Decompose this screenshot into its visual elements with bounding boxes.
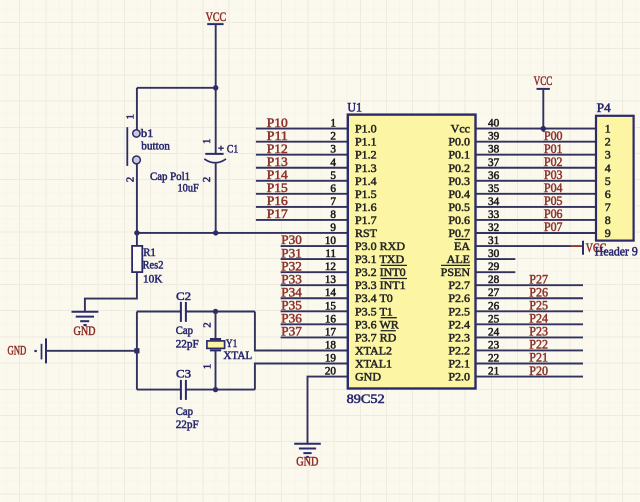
svg-text:P0.0: P0.0 (448, 135, 470, 149)
svg-text:P2.6: P2.6 (448, 291, 470, 305)
button b1 (push-button SW-PB) (127, 127, 140, 166)
svg-text:XTAL: XTAL (223, 348, 252, 362)
svg-text:5: 5 (330, 170, 336, 182)
wire RST to R1 pin1 (136, 233, 138, 246)
wire net P06 (pin 33 to P4 pin 8) (476, 219, 597, 221)
svg-text:10K: 10K (143, 271, 163, 285)
wire C1 pin2 to RST net (215, 164, 217, 233)
wire VCC to pin40 net (542, 89, 544, 129)
svg-text:P11: P11 (267, 129, 288, 143)
svg-text:P3.4 T0: P3.4 T0 (355, 291, 393, 305)
svg-text:15: 15 (325, 300, 337, 312)
svg-text:P0.2: P0.2 (448, 161, 470, 175)
svg-text:P03: P03 (544, 168, 563, 182)
wire net P21 (pin 22) (476, 363, 584, 365)
svg-text:9: 9 (330, 222, 336, 234)
svg-text:P35: P35 (281, 299, 302, 313)
wire net P07 (pin 32 to P4 pin 9) (476, 232, 597, 234)
svg-text:P2.7: P2.7 (448, 278, 470, 292)
node junction crystal top (213, 309, 218, 314)
svg-text:Res2: Res2 (143, 257, 164, 271)
wire RST net (row 9) (137, 232, 347, 234)
svg-text:VCC: VCC (534, 73, 553, 88)
wire net P05 (pin 34 to P4 pin 7) (476, 206, 597, 208)
op-amp U1 body (89C52 MCU) (348, 115, 476, 389)
ground (earth) bottom center (294, 444, 321, 457)
wire net P26 (pin 27) (476, 297, 584, 299)
svg-text:Vcc: Vcc (451, 122, 470, 136)
svg-text:10: 10 (325, 235, 337, 247)
wire net P33 (pin 13) (281, 284, 347, 286)
overline EA (455, 238, 470, 240)
svg-text:P12: P12 (267, 142, 288, 156)
svg-text:6: 6 (605, 187, 611, 201)
svg-text:P01: P01 (544, 142, 563, 156)
svg-text:14: 14 (325, 287, 337, 299)
svg-text:5: 5 (605, 174, 611, 188)
wire net P23 (pin 24) (476, 336, 584, 338)
svg-text:GND: GND (355, 370, 381, 384)
svg-text:P02: P02 (544, 155, 563, 169)
svg-text:P22: P22 (529, 338, 548, 352)
svg-text:Cap: Cap (176, 323, 193, 337)
power VCC (top, net VCC) (206, 9, 227, 24)
svg-text:P1.4: P1.4 (355, 174, 377, 188)
power VCC (bar style, at EA pin) (583, 241, 606, 255)
svg-text:12: 12 (325, 261, 336, 273)
wire net P03 (pin 36 to P4 pin 5) (476, 180, 597, 182)
svg-text:3: 3 (330, 144, 336, 156)
wire net VCC (pin 40 to P4 pin 1) (476, 128, 597, 130)
wire net P12 (pin 3) (256, 154, 347, 156)
wire net P37 (pin 17) (281, 336, 347, 338)
node junction button/RST (134, 230, 139, 235)
svg-text:GND: GND (8, 343, 27, 357)
svg-text:P3.0 RXD: P3.0 RXD (355, 239, 405, 253)
svg-text:EA: EA (454, 239, 470, 253)
svg-text:16: 16 (325, 313, 337, 325)
wire GND port to crystal loop (46, 350, 137, 352)
svg-text:P0.3: P0.3 (448, 174, 470, 188)
wire net P11 (pin 2) (256, 141, 347, 143)
wire net P10 (pin 1) (256, 128, 347, 130)
wire PSEN stub (pin 29) (476, 271, 516, 273)
svg-text:P1.0: P1.0 (355, 122, 377, 136)
svg-text:GND: GND (296, 454, 318, 468)
wire crystal pin1 (215, 351, 217, 390)
svg-text:1: 1 (125, 114, 137, 120)
svg-text:20: 20 (325, 366, 337, 378)
wire loop bottom (to C3) (137, 389, 181, 391)
wire XTAL2 link to pin 18 (255, 312, 347, 351)
wire net P30 (pin 10) (281, 245, 347, 247)
node junction C1/RST (213, 230, 218, 235)
svg-text:2: 2 (330, 131, 336, 143)
svg-text:7: 7 (605, 200, 611, 214)
svg-text:P05: P05 (544, 194, 563, 208)
svg-text:P31: P31 (281, 246, 302, 260)
svg-text:1: 1 (330, 118, 336, 130)
svg-text:C1: C1 (227, 142, 238, 156)
capacitor C2 (Cap 22pF) (181, 302, 186, 322)
power GND (bar style, left) (34, 338, 46, 363)
overline WR (381, 317, 397, 319)
svg-text:18: 18 (325, 340, 337, 352)
svg-text:P2.5: P2.5 (448, 304, 470, 318)
svg-text:P0.4: P0.4 (448, 187, 470, 201)
svg-text:10uF: 10uF (178, 181, 200, 195)
svg-text:17: 17 (325, 326, 337, 338)
svg-text:P37: P37 (281, 325, 302, 339)
svg-text:XTAL1: XTAL1 (355, 357, 392, 371)
wire net P16 (pin 7) (256, 206, 347, 208)
svg-text:9: 9 (605, 226, 611, 240)
svg-text:1: 1 (201, 139, 213, 145)
wire net P36 (pin 16) (281, 323, 347, 325)
svg-text:P27: P27 (529, 272, 548, 286)
svg-text:VCC: VCC (206, 9, 227, 24)
svg-text:P2.4: P2.4 (448, 317, 470, 331)
svg-text:button: button (141, 138, 170, 152)
svg-text:P14: P14 (267, 168, 289, 182)
svg-text:7: 7 (330, 196, 336, 208)
wire net P04 (pin 35 to P4 pin 6) (476, 193, 597, 195)
svg-text:C2: C2 (176, 289, 191, 303)
wire C2 to crystal column (186, 311, 255, 313)
power VCC (above P4) (534, 73, 553, 89)
svg-text:1: 1 (202, 364, 214, 370)
wire button pin1 stub (136, 88, 138, 130)
svg-text:22pF: 22pF (176, 417, 199, 431)
svg-text:P3.7 RD: P3.7 RD (355, 330, 397, 344)
svg-text:C3: C3 (176, 367, 191, 381)
svg-text:3: 3 (605, 148, 611, 162)
svg-text:RST: RST (355, 226, 378, 240)
overline RD (381, 330, 396, 332)
wire net P14 (pin 5) (256, 180, 347, 182)
crystal Y1 (XTAL) (207, 339, 225, 350)
svg-text:P4: P4 (597, 101, 612, 115)
wire net P02 (pin 37 to P4 pin 4) (476, 167, 597, 169)
svg-text:P16: P16 (267, 194, 288, 208)
svg-text:P07: P07 (544, 220, 563, 234)
wire branch VCC to button top (137, 87, 216, 89)
wire net P17 (pin 8) (256, 219, 347, 221)
wire net P27 (pin 28) (476, 284, 584, 286)
svg-text:P24: P24 (529, 312, 548, 326)
overline INT0 (381, 264, 407, 266)
svg-text:2: 2 (201, 177, 213, 183)
wire R1 pin2 to GND (85, 272, 137, 311)
svg-text:P1.3: P1.3 (355, 161, 377, 175)
svg-text:P33: P33 (281, 272, 302, 286)
svg-text:P06: P06 (544, 207, 563, 221)
wire loop left vertical (136, 312, 138, 390)
svg-text:P2.2: P2.2 (448, 344, 470, 358)
svg-text:U1: U1 (347, 100, 362, 114)
svg-text:ALE: ALE (447, 252, 470, 266)
wire net P31 (pin 11) (281, 258, 347, 260)
wire net P35 (pin 15) (281, 310, 347, 312)
wire loop top (to C2) (137, 311, 181, 313)
svg-text:XTAL2: XTAL2 (355, 344, 392, 358)
svg-text:P34: P34 (281, 285, 302, 299)
node junction crystal bottom (213, 387, 218, 392)
wire EA (pin 31) (476, 245, 571, 247)
svg-text:P26: P26 (529, 285, 548, 299)
wire pin20 to GND (308, 377, 348, 444)
wire VCC vertical (bar to C1) (215, 24, 217, 154)
overline PSEN (441, 264, 470, 266)
wire net P01 (pin 38 to P4 pin 3) (476, 154, 597, 156)
svg-text:P2.3: P2.3 (448, 330, 470, 344)
svg-text:P0.1: P0.1 (448, 148, 470, 162)
wire net P34 (pin 14) (281, 297, 347, 299)
svg-text:22pF: 22pF (176, 336, 199, 350)
svg-text:4: 4 (330, 157, 336, 169)
wire net P32 (pin 12) (281, 271, 347, 273)
svg-text:P13: P13 (267, 155, 288, 169)
svg-text:2: 2 (125, 177, 137, 183)
svg-text:P17: P17 (267, 207, 288, 221)
svg-text:P1.7: P1.7 (355, 213, 377, 227)
svg-text:Cap: Cap (176, 404, 193, 418)
svg-text:P1.5: P1.5 (355, 187, 377, 201)
node junction VCC/pin40 (540, 125, 547, 132)
svg-text:P15: P15 (267, 181, 288, 195)
svg-text:P0.7: P0.7 (448, 226, 470, 240)
svg-text:P3.6 WR: P3.6 WR (355, 317, 399, 331)
node junction VCC/button branch (213, 85, 218, 90)
svg-text:P36: P36 (281, 312, 302, 326)
svg-text:Header 9: Header 9 (595, 245, 638, 259)
svg-text:2: 2 (605, 135, 611, 149)
wire C3 to crystal column (186, 389, 255, 391)
svg-text:PSEN: PSEN (441, 265, 471, 279)
resistor R1 (Res2 10K) (132, 246, 142, 272)
svg-text:P3.2 INT0: P3.2 INT0 (355, 265, 406, 279)
svg-text:11: 11 (325, 248, 336, 260)
wire button pin2 to RST net (136, 164, 138, 233)
svg-text:P21: P21 (529, 351, 548, 365)
svg-text:2: 2 (202, 322, 214, 328)
svg-text:P0.5: P0.5 (448, 200, 470, 214)
svg-text:P3.3 INT1: P3.3 INT1 (355, 278, 406, 292)
svg-text:P1.6: P1.6 (355, 200, 377, 214)
wire net P24 (pin 25) (476, 323, 584, 325)
wire VCC port stub (maroon) (571, 245, 584, 247)
wire net P15 (pin 6) (256, 193, 347, 195)
svg-text:P3.1 TXD: P3.1 TXD (355, 252, 404, 266)
svg-text:P3.5 T1: P3.5 T1 (355, 304, 393, 318)
svg-text:P04: P04 (544, 181, 563, 195)
wire crystal pin2 (215, 312, 217, 340)
svg-text:8: 8 (330, 209, 336, 221)
svg-text:89C52: 89C52 (347, 392, 385, 406)
svg-text:P23: P23 (529, 325, 548, 339)
svg-text:13: 13 (325, 274, 337, 286)
svg-text:GND: GND (74, 324, 96, 338)
svg-text:P00: P00 (544, 129, 563, 143)
wire XTAL1 link to pin 19 (255, 364, 347, 390)
svg-text:4: 4 (605, 161, 611, 175)
capacitor C3 (Cap 22pF) (181, 380, 186, 400)
capacitor C1 (Cap Pol1 10uF) (204, 146, 226, 163)
svg-text:P1.1: P1.1 (355, 135, 377, 149)
ground (earth) below R1 (72, 312, 99, 325)
wire net P00 (pin 39 to P4 pin 2) (476, 141, 597, 143)
svg-text:6: 6 (330, 183, 336, 195)
wire net P22 (pin 23) (476, 349, 584, 351)
svg-text:P10: P10 (267, 116, 288, 130)
svg-text:P25: P25 (529, 299, 548, 313)
wire net P13 (pin 4) (256, 167, 347, 169)
svg-text:P30: P30 (281, 233, 302, 247)
wire ALE stub (pin 30) (476, 258, 516, 260)
wire net P25 (pin 26) (476, 310, 584, 312)
svg-text:P2.1: P2.1 (448, 357, 470, 371)
overline INT1 (381, 278, 407, 280)
svg-text:1: 1 (605, 122, 611, 136)
svg-text:P32: P32 (281, 259, 302, 273)
connector P4 (Header 9) body (596, 116, 634, 241)
svg-text:P0.6: P0.6 (448, 213, 470, 227)
svg-text:P2.0: P2.0 (448, 370, 470, 384)
wire net P20 (pin 21) (476, 376, 584, 378)
node junction GND/loop left (134, 348, 139, 353)
svg-text:8: 8 (605, 213, 611, 227)
svg-text:19: 19 (325, 353, 337, 365)
svg-text:P1.2: P1.2 (355, 148, 377, 162)
svg-text:P20: P20 (529, 364, 548, 378)
